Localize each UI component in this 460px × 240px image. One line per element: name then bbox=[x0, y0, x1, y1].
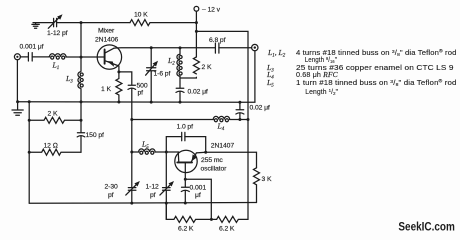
inductor L3 bbox=[78, 57, 83, 120]
node 0.02uf-2 bottom on L4 wire bbox=[238, 118, 241, 121]
wire emitter to 500pf bbox=[119, 72, 132, 85]
capacitor 0.02 uf (first) bbox=[176, 78, 184, 102]
node emitter junction bbox=[117, 70, 120, 73]
wire input shield down bbox=[16, 60, 18, 102]
node supply branch bbox=[195, 30, 198, 33]
svg-text:SeekIC.com: SeekIC.com bbox=[398, 219, 455, 233]
capacitor 1-12 pf (trimmer, top-left) bbox=[54, 18, 57, 26]
input terminal J1 bbox=[14, 54, 20, 60]
node 0.001 bottom bbox=[184, 202, 187, 205]
svg-text:6.8 pf: 6.8 pf bbox=[209, 37, 226, 44]
node 6.2K midpoint bbox=[210, 218, 213, 221]
wire top from ground to base column bbox=[33, 22, 81, 24]
capacitor 500 pf bbox=[128, 85, 136, 119]
capacitor 6.8 pf bbox=[215, 43, 219, 53]
node base junction bbox=[80, 56, 83, 59]
svg-text:150 pf: 150 pf bbox=[86, 132, 105, 139]
node 1-12 rail bbox=[165, 202, 168, 205]
wire L2/2K bottoms join bbox=[180, 76, 196, 79]
svg-text:μf: μf bbox=[195, 192, 201, 199]
capacitor 0.001 uf (input) bbox=[28, 53, 32, 61]
node rail right end bbox=[238, 101, 241, 104]
svg-text:pf: pf bbox=[108, 192, 114, 199]
svg-text:255 mc: 255 mc bbox=[201, 157, 223, 164]
resistor 1K bbox=[116, 79, 122, 103]
capacitor 150 pf bbox=[77, 120, 85, 152]
svg-text:Mixer: Mixer bbox=[98, 28, 115, 35]
node L3 rail bbox=[80, 100, 83, 103]
wire L4 row bbox=[132, 119, 248, 121]
node 12ohm left bbox=[28, 151, 31, 154]
resistor 10K bbox=[130, 20, 150, 26]
wire output shield down to rail bbox=[240, 51, 255, 103]
transistor Q2 2N1407 oscillator bbox=[175, 150, 197, 172]
svg-text:0.001 μf: 0.001 μf bbox=[20, 44, 44, 51]
resistor 6.2K (right) bbox=[217, 216, 248, 222]
node L4 wire right end bbox=[247, 118, 250, 121]
svg-text:pf: pf bbox=[138, 90, 144, 97]
svg-text:12 Ω: 12 Ω bbox=[44, 142, 58, 149]
node base branch bbox=[184, 178, 187, 181]
svg-text:2-30: 2-30 bbox=[105, 184, 119, 191]
wire base bias jog to 6.2K midpoint bbox=[185, 179, 211, 219]
inductor L4 bbox=[213, 116, 230, 119]
svg-text:oscillator: oscillator bbox=[201, 166, 228, 173]
wire mixer emitter down bbox=[118, 66, 120, 79]
svg-text:2 K: 2 K bbox=[48, 111, 58, 118]
wire right column to 6.2K row bbox=[247, 202, 249, 219]
output terminal J2 bbox=[252, 44, 258, 50]
wire mid ground rail bbox=[18, 101, 240, 104]
wire 3K branch bbox=[206, 152, 257, 168]
node 2K left bbox=[28, 119, 31, 122]
node 2-30 rail bbox=[130, 202, 133, 205]
wire left branch vertical bbox=[28, 102, 30, 203]
node L2 top bbox=[179, 46, 182, 49]
wire 6.2K row bbox=[166, 203, 174, 219]
resistor 2K (left) bbox=[29, 117, 81, 123]
capacitor 1-6 pf (trimmer) bbox=[147, 48, 156, 102]
svg-text:6.2 K: 6.2 K bbox=[178, 226, 194, 233]
node base-column top junction bbox=[80, 21, 83, 24]
svg-text:0.02 μf: 0.02 μf bbox=[250, 105, 270, 112]
node 0.02uf bottom bbox=[179, 101, 182, 104]
node L5 left bbox=[130, 151, 133, 154]
node emitter junction osc bbox=[204, 151, 207, 154]
ground (top-left) bbox=[32, 23, 39, 29]
capacitor 0.001 uf (osc) bbox=[181, 187, 189, 203]
resistor 3K bbox=[254, 168, 260, 203]
wire 1.0pf feedback loop bbox=[166, 137, 205, 153]
svg-text:1 K: 1 K bbox=[101, 86, 111, 93]
node input-ground bbox=[16, 100, 19, 103]
terminal -12v bbox=[194, 6, 199, 11]
svg-text:6.2 K: 6.2 K bbox=[219, 226, 235, 233]
wire base column vertical bbox=[80, 23, 82, 58]
wire 6.8pf to output terminal bbox=[219, 47, 252, 49]
wire mixer collector bbox=[114, 47, 215, 49]
resistor 2K (tank) bbox=[193, 57, 199, 74]
capacitor 1-12 pf (osc trimmer) bbox=[163, 152, 171, 219]
resistor 12 ohm bbox=[29, 149, 81, 155]
inductor L2 bbox=[179, 48, 181, 78]
wire -12v vertical bbox=[195, 11, 197, 57]
svg-text:3 K: 3 K bbox=[262, 176, 272, 183]
svg-text:2 K: 2 K bbox=[202, 64, 212, 71]
svg-text:1.0 pf: 1.0 pf bbox=[177, 123, 194, 130]
node 10K right bbox=[195, 21, 198, 24]
capacitor 2-30 pf (trimmer) bbox=[128, 188, 136, 191]
svg-text:500: 500 bbox=[137, 83, 148, 90]
node 1-6pf top bbox=[150, 46, 153, 49]
wire 10K row bbox=[81, 22, 196, 24]
wire L5 to oscillator bbox=[166, 151, 178, 153]
inductor L5 bbox=[132, 151, 167, 153]
inductor L1 bbox=[50, 54, 67, 57]
svg-text:1-6 pf: 1-6 pf bbox=[154, 71, 171, 78]
svg-text:10 K: 10 K bbox=[134, 12, 148, 19]
capacitor 1.0 pf bbox=[182, 132, 185, 140]
wire input to cap bbox=[20, 56, 28, 58]
svg-text:0.001: 0.001 bbox=[190, 185, 207, 192]
wire 500pf column down through rail to L4/L5 bbox=[131, 120, 133, 204]
svg-text:2N1407: 2N1407 bbox=[211, 143, 235, 150]
wire cap to L1 bbox=[32, 56, 48, 58]
svg-text:1-12 pf: 1-12 pf bbox=[47, 30, 68, 37]
svg-text:– 12 v: – 12 v bbox=[202, 7, 221, 14]
node L4 left bbox=[130, 118, 133, 121]
svg-text:0.02 μf: 0.02 μf bbox=[188, 89, 208, 96]
svg-text:1-12: 1-12 bbox=[146, 184, 160, 191]
ground (main) bbox=[12, 102, 23, 116]
capacitor 0.02 uf (second) bbox=[236, 102, 244, 119]
svg-text:pf: pf bbox=[150, 192, 156, 199]
node 2K right bbox=[80, 119, 83, 122]
node L5 right / feedback junction bbox=[165, 151, 168, 154]
wire bottom rail bbox=[29, 202, 256, 205]
svg-text:2N1406: 2N1406 bbox=[95, 37, 119, 44]
resistor 6.2K (left) bbox=[174, 216, 217, 222]
wire supply branch to right column bbox=[196, 31, 248, 202]
node 1K bottom bbox=[117, 101, 120, 104]
wire L1 to mixer base bbox=[66, 56, 104, 58]
wire oscillator base down bbox=[184, 162, 186, 187]
transistor Q1 2N1406 mixer bbox=[97, 45, 121, 69]
node left-branch top bbox=[28, 100, 31, 103]
node 1-6pf bottom bbox=[150, 101, 153, 104]
svg-text:1 turn #18 tinned buss on 3/8": 1 turn #18 tinned buss on 3/8" dia Teflo… bbox=[296, 78, 457, 88]
